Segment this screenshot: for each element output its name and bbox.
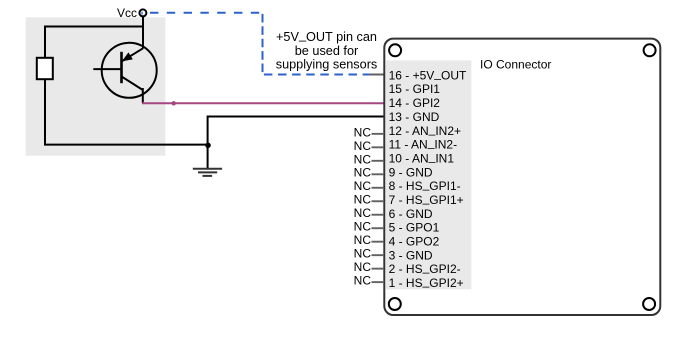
svg-text:NC: NC (354, 125, 372, 139)
NC pin 2 (354, 260, 384, 274)
wire bottom horizontal (44, 144, 208, 146)
svg-text:IO Connector: IO Connector (480, 57, 551, 71)
wire left vertical (to resistor) (44, 26, 46, 58)
svg-text:6 - GND: 6 - GND (389, 207, 433, 221)
svg-text:16 - +5V_OUT: 16 - +5V_OUT (389, 66, 467, 82)
NC pin 4 (354, 233, 384, 247)
wire +5V_OUT (blue dashed) (150, 12, 263, 14)
mounting hole top-right (644, 44, 656, 56)
svg-text:NC: NC (354, 139, 372, 153)
svg-text:NC: NC (354, 179, 372, 193)
wire GND (black, pin 13 to ground) (208, 117, 385, 169)
IO connector body (384, 39, 660, 315)
pin 16 lead stub (370, 74, 384, 76)
resistor R1 (37, 58, 53, 79)
annotation text (276, 28, 378, 72)
pin label background strip (385, 60, 471, 289)
svg-text:15 - GPI1: 15 - GPI1 (389, 82, 441, 96)
svg-text:be used for: be used for (295, 44, 359, 58)
NC pin 6 (354, 206, 384, 220)
junction on magenta wire (172, 101, 176, 105)
NC pin 3 (354, 247, 384, 261)
svg-text:NC: NC (354, 233, 372, 247)
svg-text:1 - HS_GPI2+: 1 - HS_GPI2+ (389, 274, 464, 290)
NC pin 9 (354, 166, 384, 180)
NC pin 1 (354, 274, 384, 288)
NC pin 5 (354, 220, 384, 234)
svg-text:NC: NC (354, 274, 372, 288)
junction node (205, 143, 211, 149)
svg-text:NC: NC (354, 206, 372, 220)
svg-text:11 - AN_IN2-: 11 - AN_IN2- (389, 136, 458, 152)
svg-text:NC: NC (354, 247, 372, 261)
svg-text:NC: NC (354, 166, 372, 180)
svg-text:Vcc: Vcc (117, 6, 137, 20)
NC pin 7 (354, 193, 384, 207)
svg-text:4 - GPO2: 4 - GPO2 (389, 235, 440, 249)
NC pin 8 (354, 179, 384, 193)
svg-text:NC: NC (354, 260, 372, 274)
NC pin 11 (354, 139, 384, 153)
svg-text:NC: NC (354, 152, 372, 166)
transistor Q1 (93, 43, 156, 98)
svg-text:supplying sensors: supplying sensors (276, 58, 378, 72)
svg-text:5 - GPO1: 5 - GPO1 (389, 221, 440, 235)
wire collector vertical (142, 88, 144, 103)
wire top horizontal (Vcc node to resistor top) (45, 26, 143, 28)
circuit group background (26, 17, 166, 155)
svg-text:NC: NC (354, 193, 372, 207)
ground (193, 169, 222, 176)
wire Vcc vertical (to transistor emitter) (142, 16, 144, 49)
svg-text:+5V_OUT pin can: +5V_OUT pin can (276, 28, 377, 44)
wire resistor bottom vertical (44, 79, 46, 145)
svg-text:10 - AN_IN1: 10 - AN_IN1 (389, 149, 455, 165)
NC pin 12 (354, 125, 384, 139)
mounting hole bottom-left (389, 298, 401, 310)
svg-text:14 - GPI2: 14 - GPI2 (389, 96, 441, 110)
wire GPI2 (magenta) (142, 102, 384, 104)
NC pin 10 (354, 152, 384, 166)
mounting hole top-left (389, 44, 401, 56)
mounting hole bottom-right (643, 298, 655, 310)
svg-text:7 - HS_GPI1+: 7 - HS_GPI1+ (389, 191, 464, 207)
Vcc terminal (139, 9, 146, 16)
svg-text:12 - AN_IN2+: 12 - AN_IN2+ (389, 122, 461, 138)
svg-text:NC: NC (354, 220, 372, 234)
